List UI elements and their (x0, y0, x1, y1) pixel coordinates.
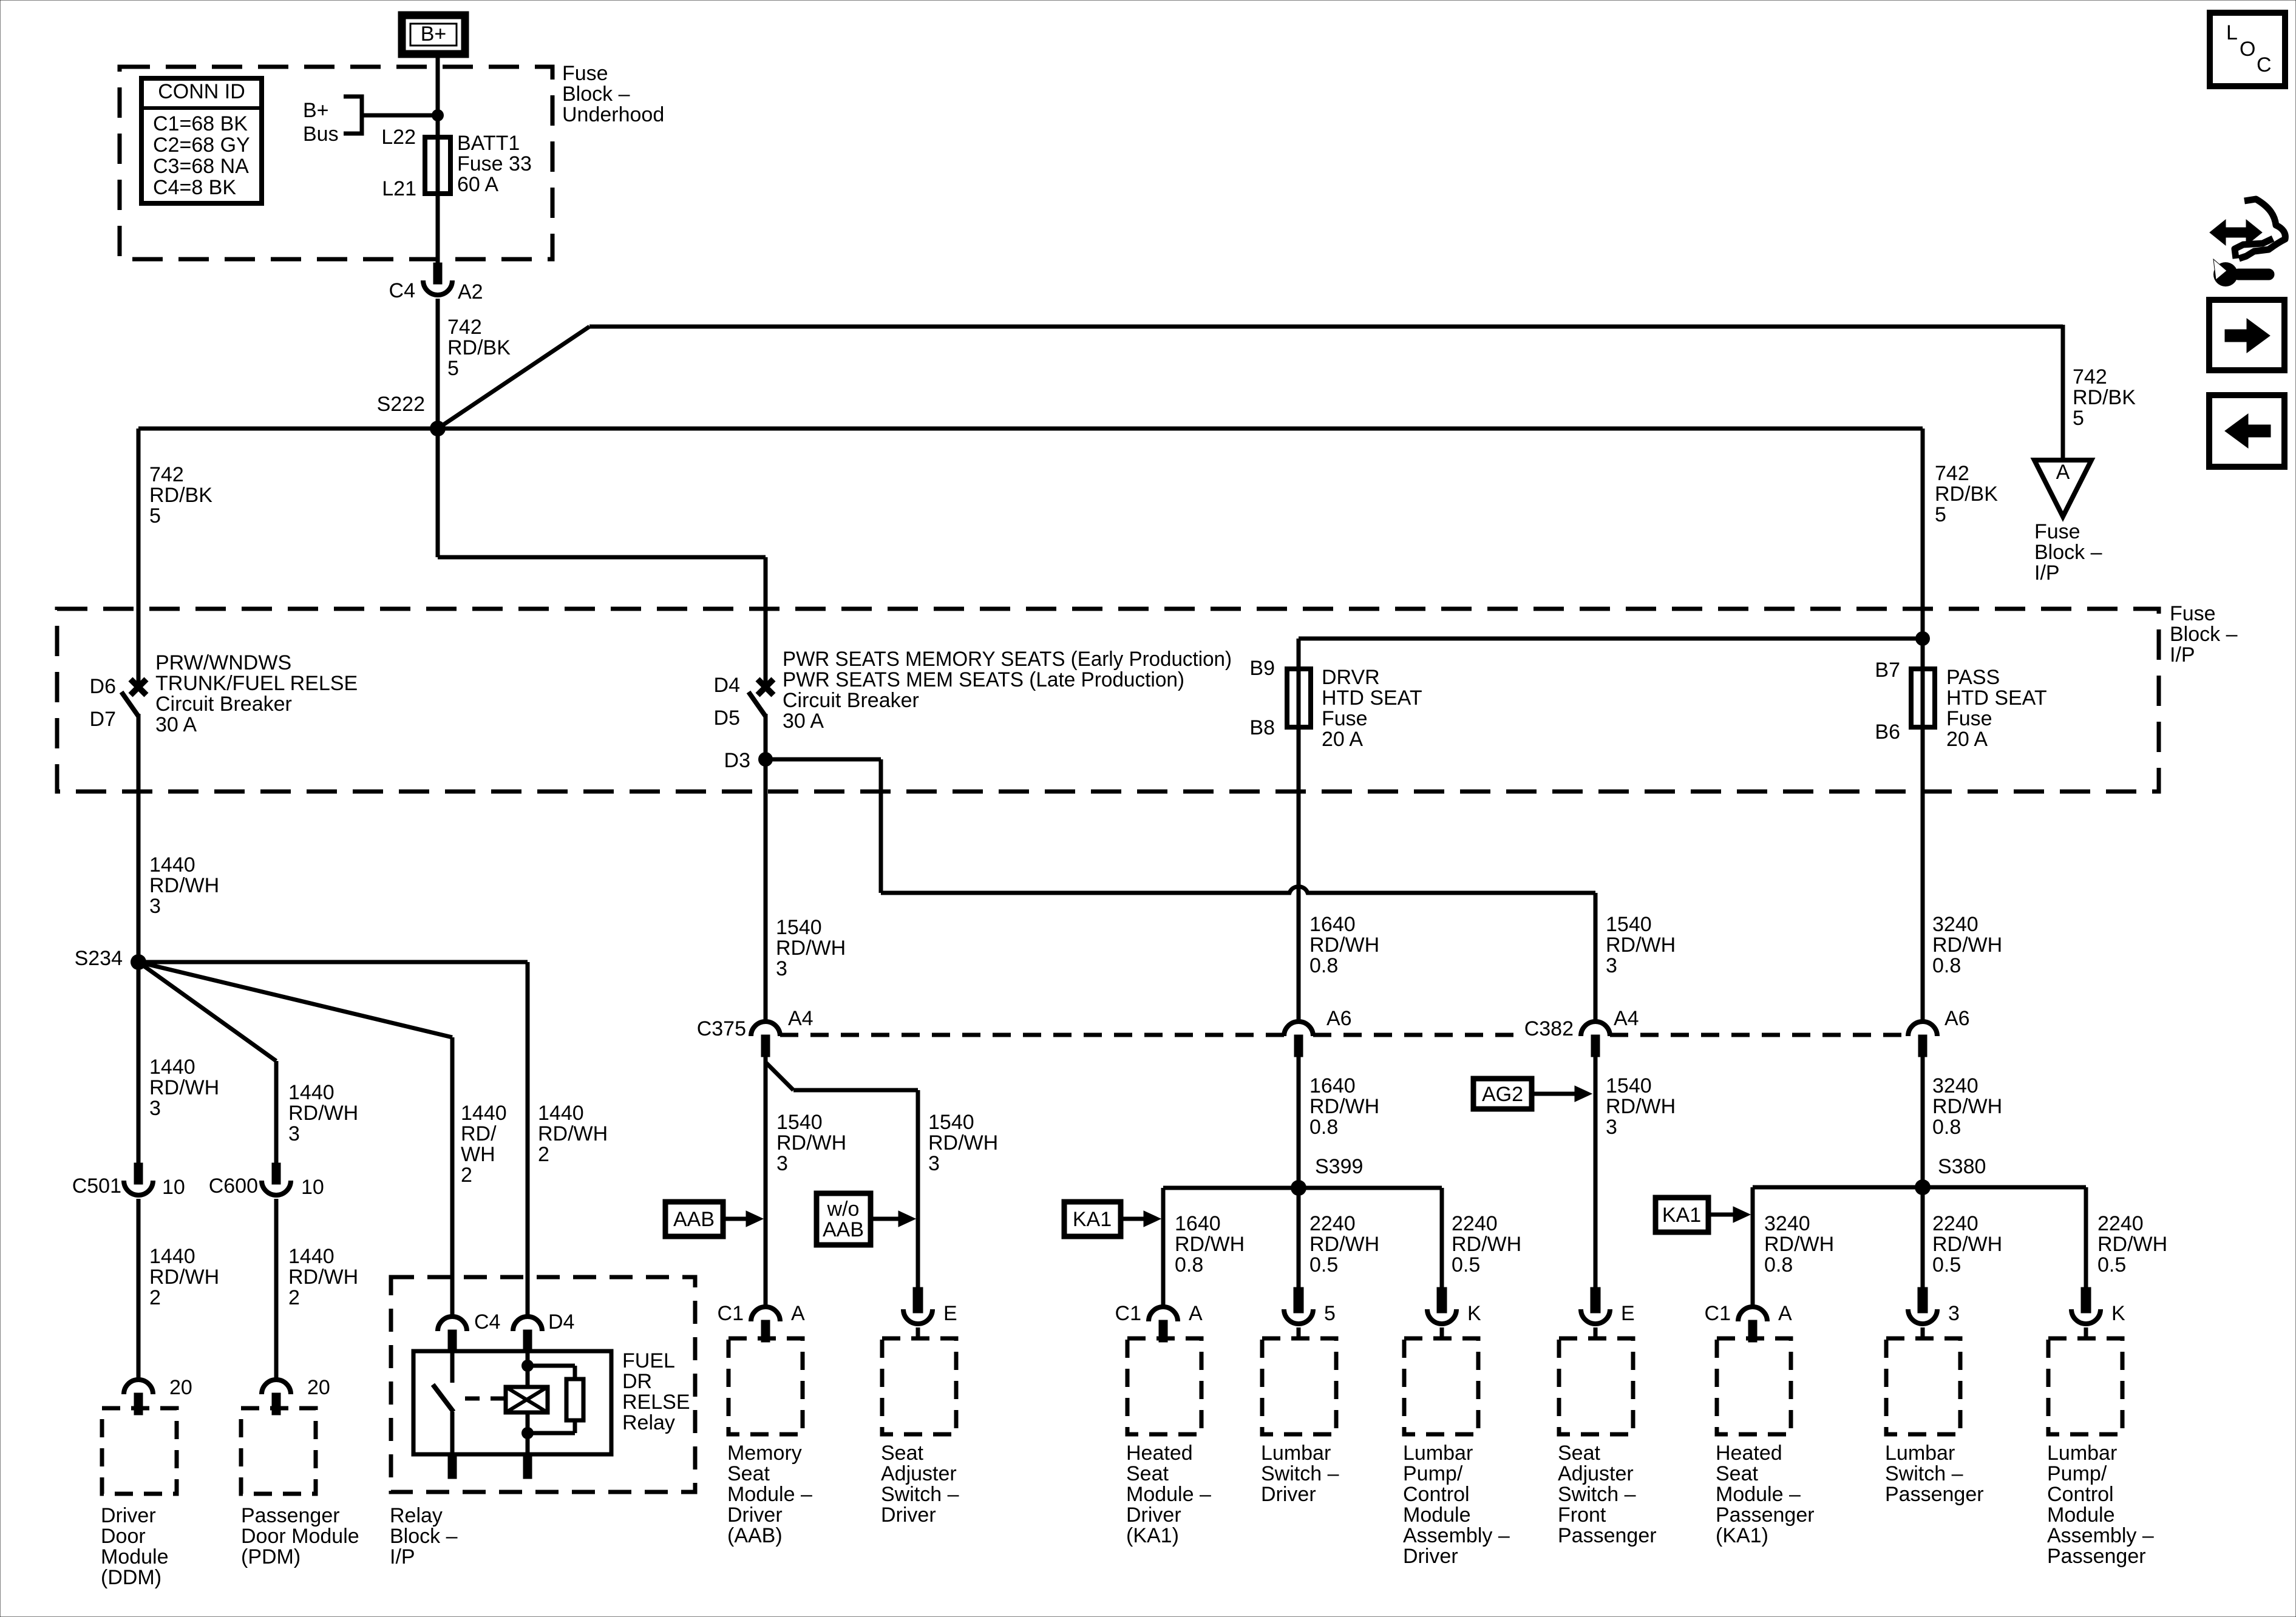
svg-text:A4: A4 (1614, 1007, 1639, 1030)
svg-text:Block –: Block – (2034, 541, 2102, 564)
svg-text:S234: S234 (75, 947, 123, 970)
svg-text:Switch –: Switch – (1558, 1483, 1636, 1506)
relay coil (526, 1352, 530, 1387)
svg-text:PWR SEATS MEM SEATS (Late Prod: PWR SEATS MEM SEATS (Late Production) (783, 668, 1184, 691)
svg-text:B7: B7 (1875, 659, 1900, 682)
svg-text:RD/WH: RD/WH (1309, 934, 1379, 957)
svg-text:Pump/: Pump/ (1403, 1462, 1463, 1485)
svg-text:L22: L22 (381, 126, 416, 149)
wire S399 mid riser (1297, 1188, 1301, 1289)
svg-text:RD/WH: RD/WH (1764, 1233, 1834, 1256)
svg-text:3: 3 (1948, 1302, 1960, 1325)
svg-text:D4: D4 (714, 674, 740, 697)
wire drvr htd seat feed (1299, 637, 1923, 641)
svg-text:2240: 2240 (1309, 1212, 1356, 1235)
svg-text:2240: 2240 (2097, 1212, 2144, 1235)
svg-text:RD/WH: RD/WH (538, 1122, 608, 1145)
svg-text:1440: 1440 (149, 1056, 195, 1079)
svg-text:C4: C4 (389, 279, 415, 302)
svg-text:5: 5 (1935, 503, 1946, 526)
svg-text:1440: 1440 (288, 1245, 335, 1268)
svg-text:3: 3 (1606, 1116, 1617, 1139)
svg-text:Control: Control (1403, 1483, 1470, 1506)
svg-text:A: A (791, 1302, 805, 1325)
svg-text:HTD SEAT: HTD SEAT (1946, 686, 2047, 710)
svg-text:B8: B8 (1249, 716, 1275, 739)
wire A6 down to S380 (1921, 1057, 1925, 1187)
svg-text:2240: 2240 (1932, 1212, 1978, 1235)
svg-text:S399: S399 (1315, 1155, 1363, 1178)
svg-text:RD/WH: RD/WH (288, 1266, 358, 1289)
svg-text:L: L (2226, 21, 2238, 44)
svg-text:Seat: Seat (727, 1462, 770, 1485)
svg-text:10: 10 (301, 1176, 324, 1199)
wire S399 right riser (1440, 1188, 1444, 1289)
svg-text:KA1: KA1 (1073, 1208, 1112, 1231)
fuse block IP box (57, 609, 2159, 792)
svg-text:(PDM): (PDM) (241, 1545, 301, 1568)
svg-text:0.8: 0.8 (1764, 1253, 1793, 1276)
svg-text:Relay: Relay (390, 1504, 443, 1527)
svg-text:C1: C1 (1115, 1302, 1141, 1325)
wire S234 diagonal to C600 (138, 962, 276, 1061)
wire down to breaker D4 (764, 557, 768, 683)
flag KA1 (driver) (1064, 1202, 1121, 1236)
svg-text:1540: 1540 (1606, 913, 1652, 936)
svg-text:Circuit Breaker: Circuit Breaker (155, 693, 292, 716)
svg-text:C382: C382 (1524, 1017, 1574, 1040)
svg-text:Passenger: Passenger (1885, 1483, 1984, 1506)
svg-text:Bus: Bus (303, 123, 339, 146)
svg-text:C600: C600 (209, 1175, 258, 1198)
node S234 (131, 954, 146, 970)
svg-text:Passenger: Passenger (2047, 1545, 2146, 1568)
fuse BATT1 Fuse 33 60A (436, 137, 440, 194)
svg-text:w/o: w/o (827, 1198, 860, 1221)
wire top right horizontal (589, 325, 2063, 329)
LOC box (2210, 13, 2285, 86)
svg-text:20: 20 (169, 1376, 192, 1399)
svg-text:5: 5 (2073, 407, 2084, 430)
wire right down to pass fuse (1921, 429, 1925, 669)
wire C375 down to memory seat module (764, 1057, 768, 1307)
svg-text:(KA1): (KA1) (1716, 1524, 1768, 1547)
connector line C375/C382 (780, 1033, 1284, 1037)
svg-text:Fuse: Fuse (562, 62, 608, 85)
wire S399 bar (1163, 1186, 1442, 1190)
wire branch to seat adjuster switch driver (766, 1062, 793, 1090)
wire fuse B6 down to A6 (1921, 727, 1925, 1022)
svg-text:0.5: 0.5 (1932, 1253, 1961, 1276)
svg-text:I/P: I/P (2034, 561, 2060, 585)
svg-text:20: 20 (307, 1376, 330, 1399)
node D3 (758, 752, 773, 767)
relay FUEL DR RELSE box (413, 1351, 611, 1454)
node S222 (430, 421, 446, 436)
svg-text:RD/WH: RD/WH (149, 1076, 219, 1099)
service icon (2210, 220, 2262, 245)
wire S380 left riser (1751, 1187, 1755, 1307)
svg-text:Adjuster: Adjuster (1558, 1462, 1634, 1485)
fuse PASS HTD SEAT 20A B7/B6 (1921, 639, 1925, 727)
svg-text:Assembly –: Assembly – (1403, 1524, 1510, 1547)
svg-text:60 A: 60 A (457, 173, 498, 196)
svg-text:20 A: 20 A (1946, 728, 1988, 751)
svg-text:1640: 1640 (1309, 913, 1356, 936)
svg-text:Lumbar: Lumbar (1403, 1442, 1473, 1465)
svg-text:3: 3 (1606, 954, 1617, 977)
svg-text:B+: B+ (421, 22, 447, 46)
svg-text:RD/WH: RD/WH (776, 1131, 846, 1154)
svg-text:PASS: PASS (1946, 666, 2000, 689)
svg-text:3: 3 (288, 1122, 300, 1145)
connector C501 pin 10 (134, 1163, 143, 1184)
svg-text:RD/WH: RD/WH (1932, 1233, 2002, 1256)
svg-text:0.8: 0.8 (1932, 954, 1961, 977)
svg-text:C1: C1 (718, 1302, 744, 1325)
connector relay D4 (513, 1317, 542, 1331)
svg-text:Door Module: Door Module (241, 1525, 359, 1548)
svg-text:0.8: 0.8 (1309, 954, 1338, 977)
svg-text:Switch –: Switch – (881, 1483, 959, 1506)
svg-text:1540: 1540 (776, 916, 822, 939)
wire S222 right (438, 427, 1923, 431)
svg-text:1440: 1440 (461, 1102, 507, 1125)
svg-text:AG2: AG2 (1482, 1083, 1523, 1106)
svg-text:Driver: Driver (1403, 1545, 1458, 1568)
svg-text:Block –: Block – (562, 83, 630, 106)
module memory seat module driver (AAB) (751, 1307, 780, 1321)
svg-text:5: 5 (149, 504, 161, 527)
flag AAB (665, 1202, 723, 1236)
svg-text:PWR SEATS MEMORY SEATS (Early: PWR SEATS MEMORY SEATS (Early Production… (783, 648, 1232, 671)
svg-text:A: A (1189, 1302, 1203, 1325)
module heated seat module passenger (KA1) (1738, 1307, 1767, 1321)
svg-text:1640: 1640 (1309, 1074, 1356, 1097)
connector DDM pin 20 (124, 1380, 153, 1394)
svg-text:RD/BK: RD/BK (149, 484, 212, 507)
svg-text:DRVR: DRVR (1322, 666, 1380, 689)
svg-text:L21: L21 (382, 177, 416, 200)
svg-text:A: A (1778, 1302, 1792, 1325)
svg-text:Driver: Driver (101, 1504, 156, 1527)
svg-text:TRUNK/FUEL RELSE: TRUNK/FUEL RELSE (155, 672, 358, 695)
svg-text:0.8: 0.8 (1309, 1116, 1338, 1139)
svg-text:RD/WH: RD/WH (149, 874, 219, 897)
svg-text:RD/BK: RD/BK (2073, 386, 2136, 409)
svg-text:RD/WH: RD/WH (1932, 1095, 2002, 1118)
wire S380 bar (1753, 1185, 2086, 1190)
svg-text:RD/WH: RD/WH (1932, 934, 2002, 957)
svg-text:2: 2 (288, 1286, 300, 1309)
svg-text:DR: DR (622, 1370, 652, 1393)
relay link dashes (465, 1397, 515, 1401)
relay switch (450, 1352, 455, 1383)
module lumbar switch driver (1294, 1287, 1303, 1313)
connector C382 pin A4 (1581, 1022, 1610, 1036)
svg-text:20 A: 20 A (1322, 728, 1363, 751)
svg-text:742: 742 (2073, 365, 2107, 388)
svg-text:Module –: Module – (1126, 1483, 1211, 1506)
svg-text:K: K (1467, 1302, 1481, 1325)
svg-text:O: O (2240, 38, 2255, 61)
svg-text:RD/WH: RD/WH (1606, 1095, 1676, 1118)
svg-text:1640: 1640 (1175, 1212, 1221, 1235)
connector C375 pin A4 (751, 1022, 780, 1036)
svg-text:0.5: 0.5 (1309, 1253, 1338, 1276)
wire fuse B8 down to A6 (1297, 727, 1301, 1022)
svg-text:RD/WH: RD/WH (928, 1131, 998, 1154)
svg-text:Driver: Driver (727, 1503, 783, 1527)
svg-text:10: 10 (162, 1176, 185, 1199)
wire S399 left riser (1161, 1188, 1166, 1307)
wire C382 down to seat adjuster front pass (1594, 1057, 1598, 1289)
svg-text:D5: D5 (714, 707, 740, 730)
svg-text:RD/WH: RD/WH (288, 1102, 358, 1125)
svg-text:Block –: Block – (390, 1525, 458, 1548)
flag AG2 (1473, 1079, 1532, 1109)
svg-text:2240: 2240 (1452, 1212, 1498, 1235)
wire left down to breaker D6 (137, 429, 141, 683)
wire S234 diagonal to relay C4 (138, 962, 452, 1037)
svg-text:30 A: 30 A (155, 713, 197, 736)
svg-text:1440: 1440 (149, 853, 195, 876)
svg-text:Fuse: Fuse (2170, 602, 2216, 625)
flag w/o AAB (817, 1193, 871, 1245)
svg-text:BATT1: BATT1 (457, 132, 520, 155)
svg-text:Assembly –: Assembly – (2047, 1524, 2154, 1547)
module lumbar pump control module assembly driver (1437, 1287, 1447, 1313)
svg-text:A6: A6 (1944, 1007, 1970, 1030)
svg-text:Underhood: Underhood (562, 103, 664, 126)
wire S222 left (138, 427, 438, 431)
circuit breaker D4/D5 30A (758, 679, 773, 695)
svg-text:Relay: Relay (622, 1411, 675, 1434)
svg-text:C1=68 BK: C1=68 BK (153, 112, 248, 135)
svg-text:CONN ID: CONN ID (158, 80, 245, 103)
svg-text:Heated: Heated (1716, 1442, 1782, 1465)
svg-text:RD/WH: RD/WH (1175, 1233, 1245, 1256)
node B+ bus junction (432, 109, 444, 121)
svg-text:C4: C4 (474, 1310, 500, 1334)
wire D3 down to C375 (764, 759, 768, 1022)
svg-text:WH: WH (461, 1143, 495, 1166)
svg-text:C3=68 NA: C3=68 NA (153, 155, 249, 178)
module lumbar pump control module assembly passenger (2081, 1287, 2091, 1313)
svg-text:Seat: Seat (881, 1442, 923, 1465)
svg-text:5: 5 (1324, 1302, 1336, 1325)
module seat adjuster switch front passenger (1591, 1287, 1600, 1313)
svg-text:3: 3 (149, 1097, 161, 1120)
module lumbar switch passenger (1918, 1287, 1927, 1313)
svg-text:1440: 1440 (538, 1102, 584, 1125)
svg-text:Heated: Heated (1126, 1442, 1193, 1465)
svg-text:Lumbar: Lumbar (1261, 1442, 1331, 1465)
wire A6 down to S399 (1297, 1057, 1301, 1188)
svg-text:RD/: RD/ (461, 1122, 497, 1145)
svg-text:RD/WH: RD/WH (1309, 1095, 1379, 1118)
svg-text:3: 3 (776, 1152, 788, 1175)
svg-text:3240: 3240 (1932, 913, 1978, 936)
svg-text:Passenger: Passenger (1716, 1503, 1815, 1527)
module heated seat module driver (KA1) (1149, 1307, 1178, 1321)
svg-text:RD/WH: RD/WH (1452, 1233, 1521, 1256)
svg-text:1440: 1440 (149, 1245, 195, 1268)
svg-text:C375: C375 (697, 1017, 746, 1040)
svg-text:KA1: KA1 (1662, 1204, 1701, 1227)
svg-text:Seat: Seat (1126, 1462, 1169, 1485)
svg-text:FUEL: FUEL (622, 1349, 675, 1372)
wire S380 mid riser (1921, 1187, 1925, 1289)
svg-text:Block –: Block – (2170, 623, 2238, 646)
svg-text:C: C (2257, 53, 2272, 76)
svg-text:3240: 3240 (1932, 1074, 1978, 1097)
svg-text:RD/BK: RD/BK (447, 336, 511, 359)
wire D3 branch right (766, 758, 881, 762)
svg-text:(DDM): (DDM) (101, 1566, 161, 1589)
left arrow box (2209, 395, 2284, 467)
connector C4/A2 (433, 263, 442, 284)
svg-text:2: 2 (538, 1143, 549, 1166)
fuse block underhood box (120, 67, 552, 259)
svg-text:0.8: 0.8 (1175, 1253, 1203, 1276)
svg-text:D4: D4 (548, 1310, 574, 1334)
svg-text:S222: S222 (377, 393, 425, 416)
svg-text:PRW/WNDWS: PRW/WNDWS (155, 651, 291, 674)
wire S222 diagonal to top right (438, 327, 589, 429)
svg-text:3: 3 (149, 895, 161, 918)
svg-text:I/P: I/P (2170, 643, 2195, 666)
connector C600 pin 10 (272, 1163, 280, 1184)
svg-text:Module: Module (101, 1545, 169, 1568)
svg-text:1540: 1540 (776, 1111, 823, 1134)
svg-text:E: E (1621, 1302, 1635, 1325)
svg-text:C501: C501 (72, 1175, 121, 1198)
svg-text:A2: A2 (458, 280, 483, 303)
wire B+ down to fuse (436, 53, 440, 263)
svg-text:D3: D3 (724, 749, 750, 772)
relay resistor (528, 1364, 575, 1368)
svg-text:Door: Door (101, 1525, 146, 1548)
wire B+ bus to main (362, 114, 438, 118)
wire down to fuse block IP triangle (2061, 325, 2065, 460)
svg-text:Fuse: Fuse (2034, 520, 2080, 543)
svg-text:1540: 1540 (1606, 1074, 1652, 1097)
svg-text:Lumbar: Lumbar (2047, 1442, 2117, 1465)
svg-text:3: 3 (928, 1152, 940, 1175)
svg-text:E: E (943, 1302, 957, 1325)
svg-text:Seat: Seat (1558, 1442, 1600, 1465)
module seat adjuster switch driver (913, 1287, 923, 1313)
svg-text:B9: B9 (1249, 657, 1275, 680)
svg-text:Control: Control (2047, 1483, 2114, 1506)
svg-text:Module: Module (2047, 1503, 2115, 1527)
fuse DRVR HTD SEAT 20A B9/B8 (1297, 669, 1301, 727)
svg-text:D6: D6 (90, 675, 116, 698)
wire to C382 with hop (881, 887, 1595, 893)
svg-text:Switch –: Switch – (1261, 1462, 1339, 1485)
svg-text:Pump/: Pump/ (2047, 1462, 2107, 1485)
svg-text:Module –: Module – (1716, 1483, 1801, 1506)
connector PDM pin 20 (262, 1380, 291, 1394)
svg-text:C1: C1 (1705, 1302, 1731, 1325)
svg-text:1540: 1540 (928, 1111, 974, 1134)
svg-text:742: 742 (1935, 462, 1969, 485)
svg-text:C4=8 BK: C4=8 BK (153, 176, 236, 199)
svg-text:0.5: 0.5 (1452, 1253, 1480, 1276)
svg-text:C2=68 GY: C2=68 GY (153, 134, 250, 157)
svg-text:0.5: 0.5 (2097, 1253, 2126, 1276)
svg-text:A6: A6 (1326, 1007, 1352, 1030)
svg-text:3: 3 (776, 957, 787, 980)
wire A2 to S222 (436, 299, 440, 429)
svg-text:D7: D7 (90, 708, 116, 731)
svg-text:2: 2 (149, 1286, 161, 1309)
wire S234 right to relay D4 (138, 960, 528, 964)
connector relay C4 (438, 1317, 467, 1331)
right arrow box (2209, 300, 2284, 370)
svg-text:RD/WH: RD/WH (1309, 1233, 1379, 1256)
svg-text:Switch –: Switch – (1885, 1462, 1963, 1485)
connector A6 (drvr htd seat) (1284, 1022, 1313, 1036)
node S380 (1915, 1179, 1931, 1195)
svg-text:5: 5 (447, 357, 459, 380)
module passenger door module box (241, 1408, 316, 1494)
svg-text:742: 742 (447, 316, 482, 339)
wire C600 to PDM (274, 1199, 279, 1380)
svg-text:RD/BK: RD/BK (1935, 483, 1998, 506)
wire jog right (438, 555, 766, 560)
svg-text:A: A (2056, 461, 2070, 484)
svg-text:RD/WH: RD/WH (2097, 1233, 2167, 1256)
svg-text:Module: Module (1403, 1503, 1471, 1527)
off-page triangle A fuse block IP (2034, 460, 2091, 517)
svg-text:Module –: Module – (727, 1483, 812, 1506)
svg-text:RD/WH: RD/WH (149, 1266, 219, 1289)
wire S234 down to C501 (137, 962, 141, 1163)
svg-text:Passenger: Passenger (1558, 1524, 1657, 1547)
svg-text:AAB: AAB (823, 1218, 864, 1241)
svg-text:Driver: Driver (881, 1503, 936, 1527)
relay block IP box (391, 1277, 695, 1492)
svg-text:(AAB): (AAB) (727, 1524, 783, 1547)
svg-text:2: 2 (461, 1164, 472, 1187)
svg-text:HTD SEAT: HTD SEAT (1322, 686, 1422, 710)
flag KA1 (passenger) (1656, 1198, 1708, 1232)
svg-text:(KA1): (KA1) (1126, 1524, 1179, 1547)
svg-text:Fuse: Fuse (1322, 707, 1368, 730)
svg-text:Passenger: Passenger (241, 1504, 340, 1527)
svg-text:3240: 3240 (1764, 1212, 1810, 1235)
svg-text:I/P: I/P (390, 1545, 415, 1568)
svg-text:Adjuster: Adjuster (881, 1462, 957, 1485)
svg-text:RD/WH: RD/WH (1606, 934, 1676, 957)
svg-text:Driver: Driver (1126, 1503, 1181, 1527)
svg-text:Fuse 33: Fuse 33 (457, 152, 532, 175)
svg-text:AAB: AAB (673, 1208, 715, 1231)
B+ power symbol (402, 15, 465, 54)
svg-text:Fuse: Fuse (1946, 707, 1992, 730)
circuit breaker D6/D7 30A (131, 679, 146, 695)
CONN ID table (141, 78, 262, 203)
svg-text:30 A: 30 A (783, 710, 824, 733)
svg-text:Circuit Breaker: Circuit Breaker (783, 689, 919, 712)
wire C501 to DDM (137, 1199, 141, 1380)
module driver door module box (102, 1408, 177, 1494)
svg-text:0.8: 0.8 (1932, 1116, 1961, 1139)
wire D7 down to S234 (137, 714, 141, 962)
connector A6 (pass htd seat) (1908, 1022, 1937, 1036)
